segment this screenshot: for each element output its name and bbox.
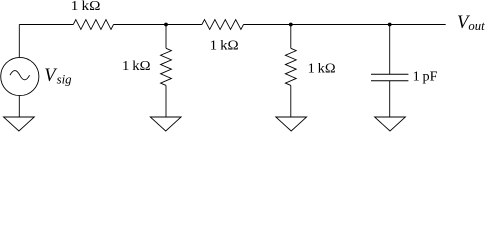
svg-text:out: out (468, 19, 485, 33)
svg-text:sig: sig (57, 73, 73, 87)
svg-text:1 kΩ: 1 kΩ (210, 38, 239, 53)
svg-text:1 pF: 1 pF (413, 68, 439, 83)
svg-text:1 kΩ: 1 kΩ (122, 58, 151, 73)
svg-text:1 kΩ: 1 kΩ (71, 0, 101, 13)
svg-text:1 kΩ: 1 kΩ (308, 61, 336, 76)
